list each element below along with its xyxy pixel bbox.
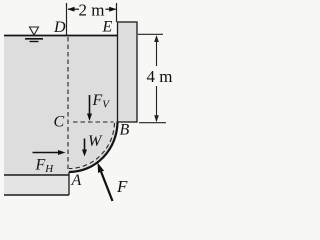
svg-text:B: B (120, 122, 130, 139)
svg-text:F: F (116, 177, 128, 196)
svg-text:D: D (53, 19, 66, 36)
svg-text:E: E (102, 19, 113, 36)
svg-text:A: A (71, 172, 82, 189)
svg-text:W: W (88, 133, 103, 150)
svg-text:C: C (54, 114, 65, 131)
svg-text:4 m: 4 m (147, 67, 173, 86)
svg-text:2 m: 2 m (79, 1, 105, 20)
